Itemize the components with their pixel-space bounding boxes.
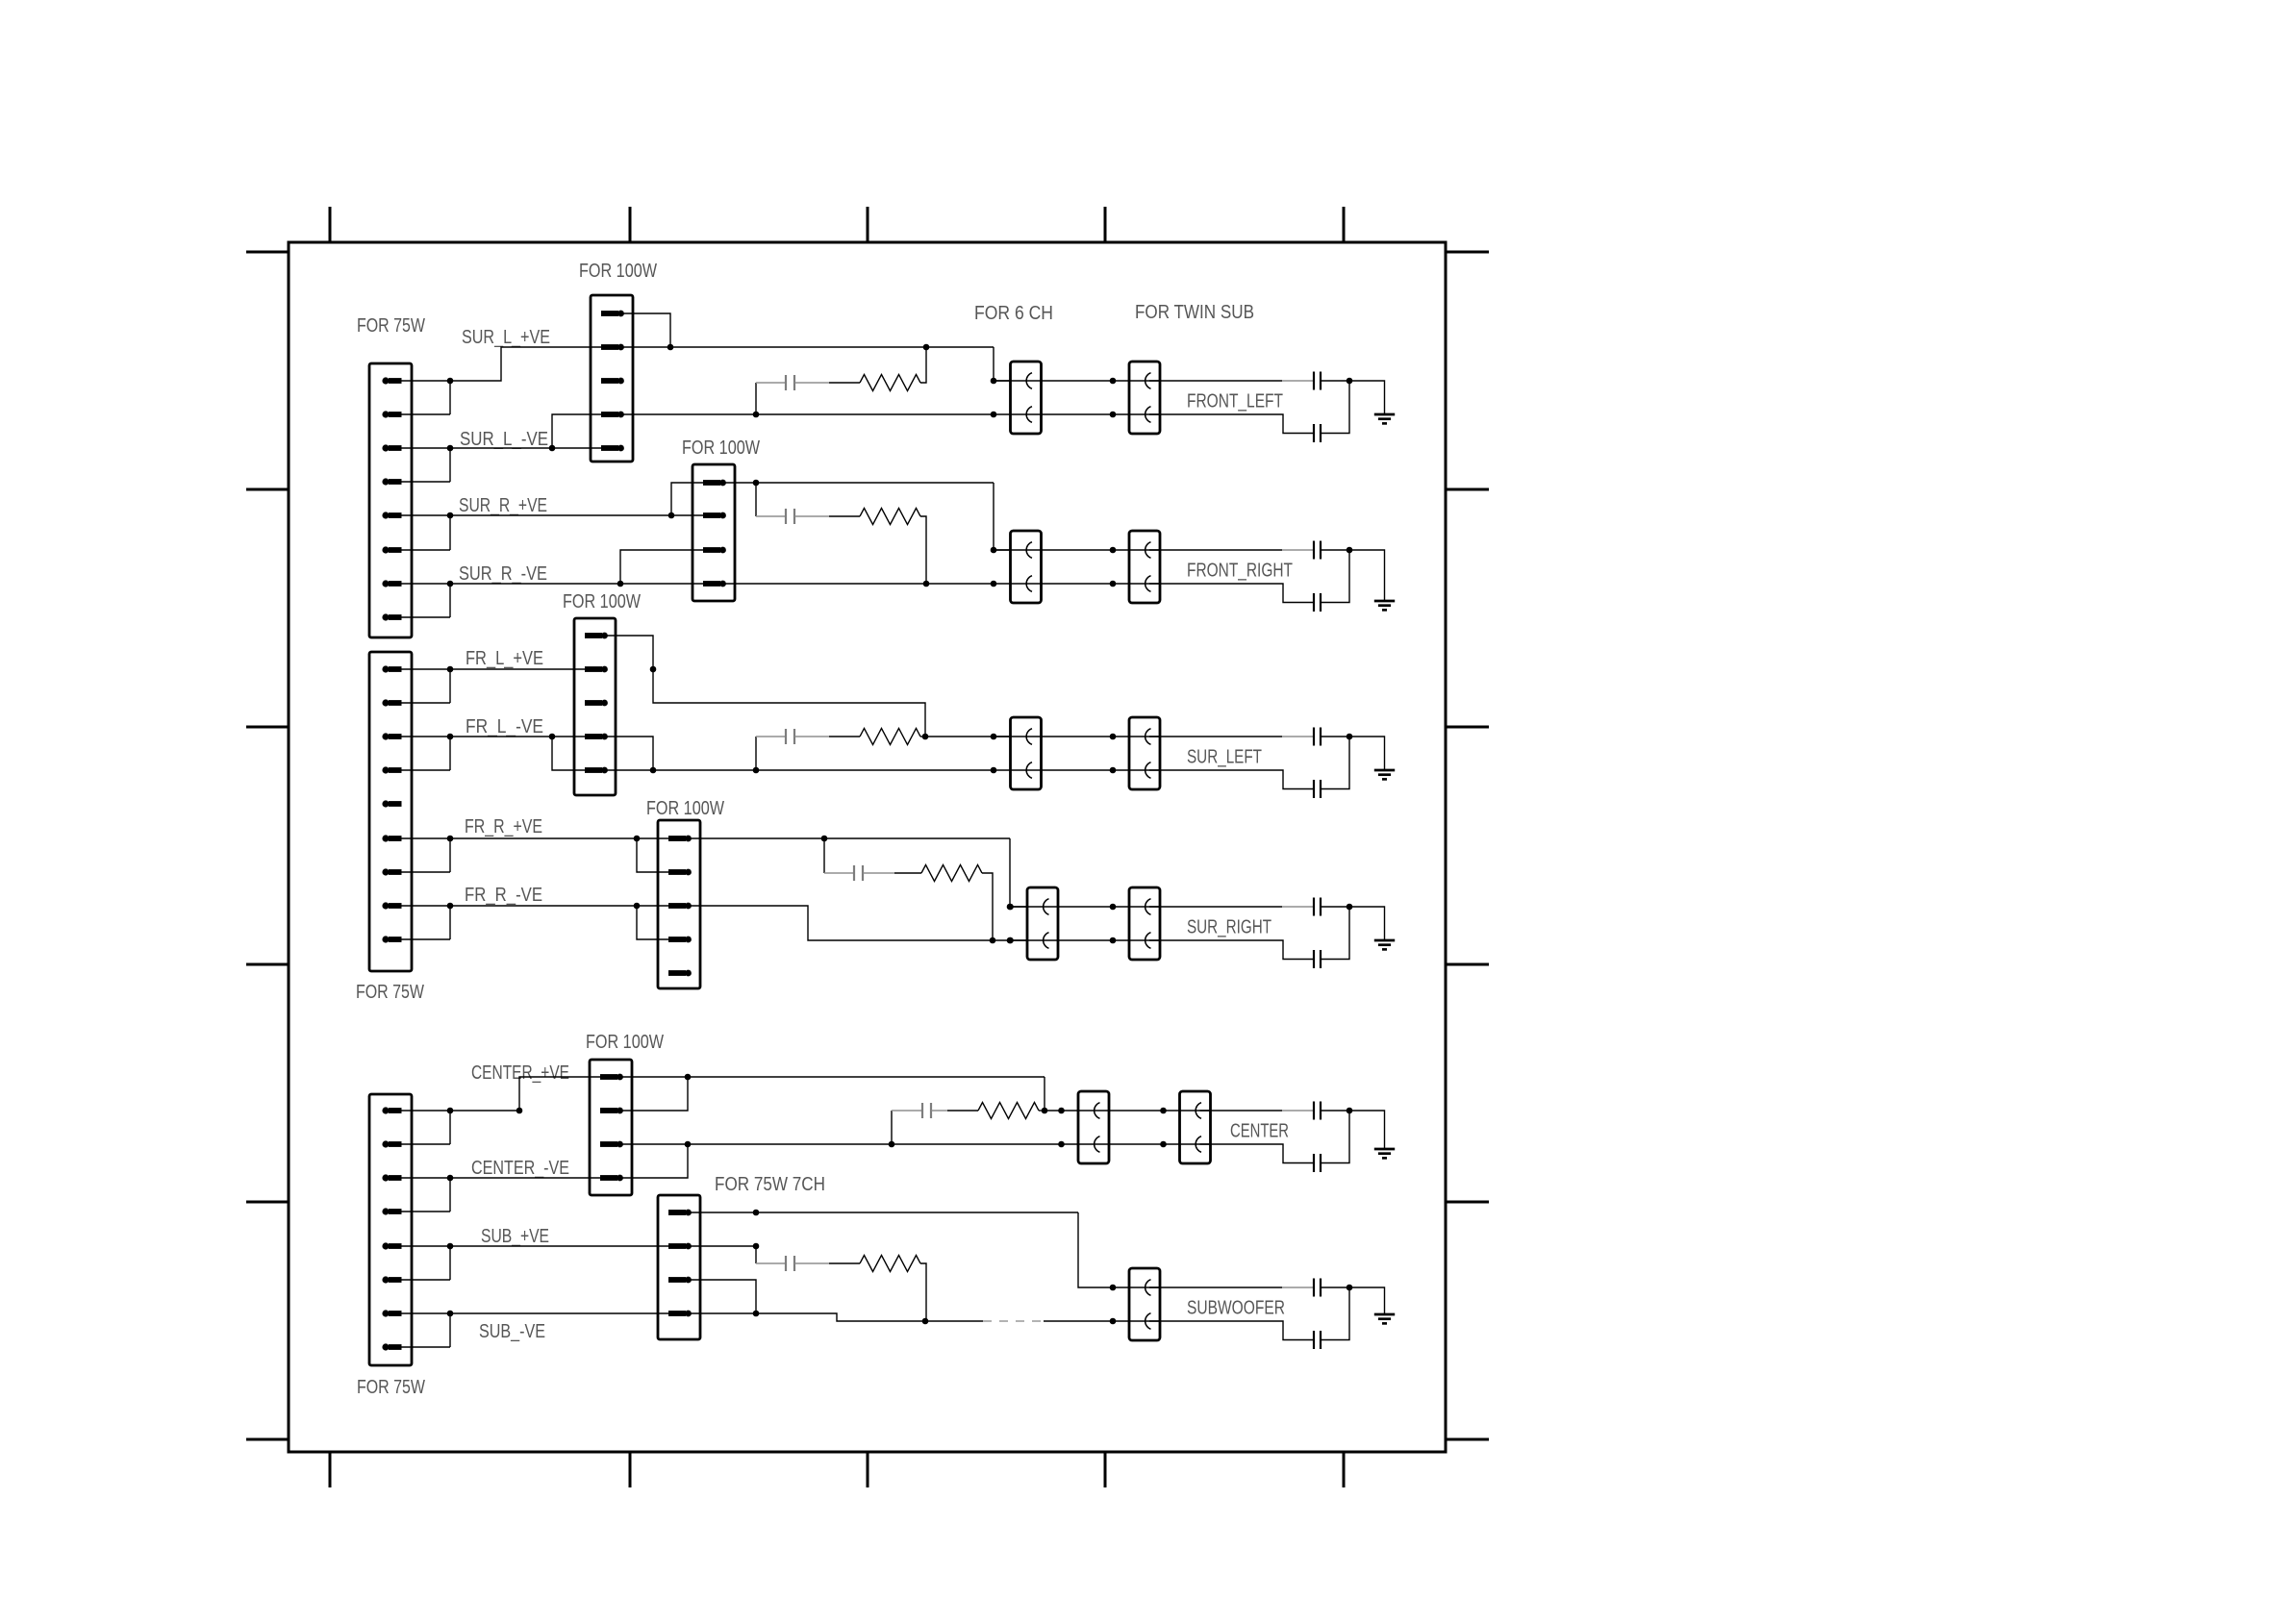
junction bbox=[447, 1175, 454, 1182]
wire bbox=[829, 1262, 860, 1264]
connector CN9 FOR TWIN SUB bbox=[1129, 717, 1160, 789]
junction bbox=[1110, 412, 1117, 418]
svg-text:FOR TWIN SUB: FOR TWIN SUB bbox=[1135, 302, 1254, 323]
connector CN2 FOR 6 CH bbox=[1011, 531, 1042, 603]
junction bbox=[1160, 1108, 1167, 1114]
svg-text:SUR_RIGHT: SUR_RIGHT bbox=[1187, 917, 1271, 938]
wire pin pair jog bbox=[401, 1313, 450, 1347]
wire bbox=[894, 872, 921, 874]
junction bbox=[1347, 378, 1353, 385]
connector J7 FOR 75W bbox=[369, 1094, 412, 1365]
svg-text:FR_L_+VE: FR_L_+VE bbox=[466, 648, 543, 669]
wire bbox=[1349, 1287, 1385, 1314]
wire pin pair jog bbox=[401, 584, 450, 617]
svg-text:FOR 100W: FOR 100W bbox=[646, 798, 724, 819]
wire row6 pin2 stub bbox=[689, 1245, 756, 1247]
svg-text:CENTER_-VE: CENTER_-VE bbox=[471, 1158, 569, 1179]
wire SUR_L_-VE bbox=[450, 414, 601, 448]
capacitor C4a bbox=[1313, 898, 1315, 916]
junction bbox=[1007, 937, 1014, 944]
wire bbox=[1321, 1111, 1349, 1163]
wire row2 -feed bbox=[723, 583, 994, 585]
junction bbox=[1347, 734, 1353, 740]
junction bbox=[753, 412, 760, 418]
wire bbox=[1321, 736, 1349, 737]
wire bbox=[982, 873, 993, 940]
wire row6 +feed bbox=[689, 1212, 1113, 1287]
connector CN5 FOR 6 CH bbox=[1078, 1091, 1109, 1163]
junction bbox=[1007, 904, 1014, 911]
svg-text:SUB_+VE: SUB_+VE bbox=[481, 1226, 549, 1247]
junction bbox=[991, 734, 997, 740]
connector J1 FOR 75W bbox=[369, 363, 412, 637]
resistor R3 bbox=[860, 729, 920, 745]
ground GND6 bbox=[1374, 1314, 1395, 1323]
junction bbox=[991, 412, 997, 418]
wire bbox=[1349, 737, 1385, 770]
wire bbox=[1200, 1144, 1315, 1163]
junction bbox=[447, 734, 454, 740]
wire bbox=[1321, 737, 1349, 789]
junction bbox=[923, 344, 930, 351]
wire bbox=[920, 1263, 926, 1321]
connector J3 FOR 100W bbox=[692, 464, 735, 601]
wire bbox=[993, 737, 1114, 770]
junction bbox=[447, 1243, 454, 1250]
svg-text:FOR 75W 7CH: FOR 75W 7CH bbox=[715, 1174, 825, 1195]
junction bbox=[991, 378, 997, 385]
wire pin pair jog bbox=[401, 448, 450, 482]
wire bbox=[1149, 736, 1314, 737]
wire FR_L_-VE bbox=[450, 737, 585, 770]
svg-text:FOR 75W: FOR 75W bbox=[356, 982, 424, 1003]
wire bbox=[1321, 1287, 1349, 1340]
junction bbox=[668, 512, 675, 519]
svg-text:FRONT_LEFT: FRONT_LEFT bbox=[1187, 391, 1283, 412]
junction bbox=[447, 378, 454, 385]
wire row4 +feed bbox=[689, 838, 1027, 907]
wire bbox=[1149, 380, 1314, 382]
connector CN8 FOR TWIN SUB bbox=[1129, 531, 1160, 603]
ground GND2 bbox=[1374, 601, 1395, 610]
resistor R6 bbox=[860, 1256, 920, 1272]
wire pin pair jog bbox=[401, 737, 450, 770]
wire row3 +feed bbox=[606, 636, 1011, 737]
connector J2 FOR 100W bbox=[591, 295, 633, 462]
wire bbox=[920, 736, 925, 737]
junction bbox=[1160, 1141, 1167, 1148]
wire row5 +feed bbox=[621, 1077, 1061, 1111]
wire bbox=[1321, 1110, 1349, 1112]
capacitor C1 bbox=[785, 375, 787, 390]
junction bbox=[991, 547, 997, 554]
junction bbox=[990, 937, 996, 944]
wire bbox=[795, 382, 830, 384]
wire pin pair jog bbox=[401, 1111, 450, 1144]
junction bbox=[1058, 1108, 1065, 1114]
wire bbox=[829, 736, 860, 737]
wire pin pair jog bbox=[401, 381, 450, 414]
wire bbox=[1149, 1287, 1314, 1288]
junction bbox=[685, 1074, 692, 1081]
wire bbox=[1164, 1111, 1212, 1144]
wire row5 -feed bbox=[621, 1144, 1061, 1178]
wire bbox=[920, 516, 926, 584]
junction bbox=[991, 767, 997, 774]
junction bbox=[447, 666, 454, 673]
wire bbox=[1113, 550, 1161, 584]
junction bbox=[1110, 378, 1117, 385]
resistor R2 bbox=[860, 509, 920, 525]
capacitor C6a bbox=[1313, 1279, 1315, 1297]
capacitor C2a bbox=[1313, 541, 1315, 560]
wire bbox=[1200, 1110, 1315, 1112]
svg-text:FOR 75W: FOR 75W bbox=[357, 315, 425, 337]
svg-text:FOR 100W: FOR 100W bbox=[563, 591, 641, 612]
capacitor C3b bbox=[1313, 780, 1315, 798]
junction bbox=[1347, 1108, 1353, 1114]
junction bbox=[821, 836, 828, 842]
junction bbox=[1042, 1108, 1048, 1114]
svg-text:SUBWOOFER: SUBWOOFER bbox=[1187, 1298, 1285, 1319]
snubber row5 bbox=[892, 1111, 922, 1144]
wire bbox=[1149, 906, 1314, 908]
junction bbox=[650, 666, 657, 673]
wire bbox=[1149, 770, 1314, 789]
wire bbox=[1321, 907, 1349, 960]
junction bbox=[447, 1311, 454, 1317]
junction bbox=[685, 1141, 692, 1148]
wire FR_L_+VE bbox=[450, 668, 585, 670]
wire pin pair jog bbox=[401, 838, 450, 872]
capacitor C6b bbox=[1313, 1331, 1315, 1349]
junction bbox=[889, 1141, 895, 1148]
ground GND1 bbox=[1374, 414, 1395, 423]
wire SUB_-VE bbox=[450, 1312, 668, 1314]
resistor R5 bbox=[978, 1103, 1039, 1119]
wire SUR_L_+VE bbox=[450, 347, 601, 381]
svg-text:SUR_LEFT: SUR_LEFT bbox=[1187, 747, 1262, 768]
wire bbox=[1113, 737, 1161, 770]
wire dashed bbox=[983, 1320, 1044, 1322]
capacitor C3a bbox=[1313, 728, 1315, 746]
wire pin pair jog bbox=[401, 1246, 450, 1280]
junction bbox=[650, 767, 657, 774]
svg-text:FOR 6 CH: FOR 6 CH bbox=[974, 303, 1053, 324]
capacitor C2 bbox=[785, 509, 787, 524]
wire bbox=[795, 1262, 830, 1264]
wire bbox=[1349, 381, 1385, 414]
junction bbox=[1007, 904, 1014, 911]
svg-text:CENTER_+VE: CENTER_+VE bbox=[471, 1062, 569, 1084]
wire bbox=[1321, 549, 1349, 551]
wire pin pair jog bbox=[401, 1178, 450, 1212]
junction bbox=[1347, 547, 1353, 554]
wire bbox=[1113, 381, 1161, 414]
wire pin pair jog bbox=[401, 515, 450, 550]
junction bbox=[549, 734, 556, 740]
wire bbox=[1349, 550, 1385, 601]
wire bbox=[993, 550, 1114, 584]
wire bbox=[1044, 1320, 1113, 1322]
wire bbox=[1321, 906, 1349, 908]
junction bbox=[1110, 1318, 1117, 1325]
junction bbox=[1110, 767, 1117, 774]
capacitor C4b bbox=[1313, 950, 1315, 968]
junction bbox=[447, 581, 454, 587]
junction bbox=[1110, 904, 1117, 911]
junction bbox=[1110, 937, 1117, 944]
connector CN11 FOR TWIN SUB bbox=[1180, 1091, 1211, 1163]
junction bbox=[753, 1210, 760, 1216]
svg-text:SUR_L_-VE: SUR_L_-VE bbox=[460, 429, 548, 450]
junction bbox=[753, 480, 760, 487]
junction bbox=[1110, 734, 1117, 740]
ground GND3 bbox=[1374, 770, 1395, 779]
wire row6 pin3 jog bbox=[689, 1280, 756, 1313]
wire bbox=[864, 872, 895, 874]
wire row4 -feed bbox=[689, 906, 1027, 940]
svg-text:SUR_R_-VE: SUR_R_-VE bbox=[459, 563, 547, 585]
connector CN3 FOR 6 CH bbox=[1011, 717, 1042, 789]
svg-text:FR_L_-VE: FR_L_-VE bbox=[466, 716, 543, 737]
wire bbox=[932, 1110, 948, 1112]
wire bbox=[829, 515, 860, 517]
capacitor C5a bbox=[1313, 1102, 1315, 1120]
capacitor C6 bbox=[785, 1256, 787, 1271]
wire bbox=[1349, 907, 1385, 940]
wire SUR_R_+VE bbox=[450, 483, 703, 515]
wire bbox=[829, 382, 860, 384]
snubber row1 bbox=[756, 383, 786, 414]
svg-text:FOR 100W: FOR 100W bbox=[579, 261, 657, 282]
capacitor C5 bbox=[921, 1103, 923, 1118]
wire bbox=[920, 347, 926, 383]
wire row6 -feed bbox=[689, 1313, 983, 1321]
wire bbox=[1349, 1111, 1385, 1149]
junction bbox=[667, 344, 674, 351]
svg-text:FRONT_RIGHT: FRONT_RIGHT bbox=[1187, 561, 1293, 582]
capacitor C1a bbox=[1313, 372, 1315, 390]
wire bbox=[1149, 940, 1314, 960]
snubber row3 bbox=[756, 737, 786, 770]
wire row1 -feed bbox=[621, 413, 994, 415]
junction bbox=[1110, 1285, 1117, 1291]
capacitor C5b bbox=[1313, 1154, 1315, 1172]
junction bbox=[1347, 904, 1353, 911]
connector J6 FOR 100W bbox=[658, 820, 700, 988]
wire bbox=[1113, 1287, 1161, 1321]
junction bbox=[922, 734, 929, 740]
junction bbox=[634, 836, 641, 842]
ground GND4 bbox=[1374, 940, 1395, 949]
wire bbox=[1321, 381, 1349, 434]
wire bbox=[947, 1110, 978, 1112]
connector CN12 FOR TWIN SUB bbox=[1129, 1268, 1160, 1340]
junction bbox=[447, 1108, 454, 1114]
capacitor C1b bbox=[1313, 424, 1315, 442]
wire pin pair jog bbox=[401, 906, 450, 939]
wire CENTER_-VE bbox=[450, 1177, 600, 1179]
junction bbox=[447, 512, 454, 519]
svg-text:FOR 100W: FOR 100W bbox=[586, 1032, 664, 1053]
junction bbox=[922, 1318, 929, 1325]
junction bbox=[991, 581, 997, 587]
wire bbox=[1321, 380, 1349, 382]
snubber row2 bbox=[756, 483, 786, 516]
wire bbox=[1061, 1111, 1165, 1144]
wire row2 +feed bbox=[723, 483, 1011, 550]
junction bbox=[1007, 937, 1014, 944]
svg-text:CENTER: CENTER bbox=[1230, 1121, 1289, 1142]
wire bbox=[1149, 549, 1314, 551]
wire bbox=[1321, 550, 1349, 603]
connector J5 FOR 100W bbox=[574, 618, 616, 795]
junction bbox=[753, 767, 760, 774]
junction bbox=[549, 445, 556, 452]
capacitor C3 bbox=[785, 729, 787, 744]
ground GND5 bbox=[1374, 1149, 1395, 1158]
snubber row6 bbox=[756, 1246, 786, 1263]
connector CN1 FOR 6 CH bbox=[1011, 362, 1042, 434]
wire bbox=[1039, 1110, 1045, 1112]
resistor R4 bbox=[921, 865, 982, 882]
wire row3 -feed bbox=[606, 737, 994, 770]
wire bbox=[795, 736, 830, 737]
svg-text:FR_R_-VE: FR_R_-VE bbox=[465, 885, 542, 906]
resistor R1 bbox=[860, 375, 920, 391]
junction bbox=[516, 1108, 523, 1114]
wire SUR_R_-VE bbox=[450, 550, 703, 584]
svg-text:FR_R_+VE: FR_R_+VE bbox=[465, 816, 542, 837]
junction bbox=[1110, 581, 1117, 587]
wire FR_R_+VE bbox=[450, 838, 668, 872]
wire bbox=[1113, 907, 1161, 940]
junction bbox=[753, 1311, 760, 1317]
junction bbox=[1347, 1285, 1353, 1291]
connector CN7 FOR TWIN SUB bbox=[1129, 362, 1160, 434]
wire SUB_+VE bbox=[450, 1245, 668, 1247]
svg-text:FOR 75W: FOR 75W bbox=[357, 1377, 425, 1398]
wire bbox=[993, 381, 1114, 414]
svg-text:SUR_L_+VE: SUR_L_+VE bbox=[462, 327, 550, 348]
junction bbox=[1110, 547, 1117, 554]
wire bbox=[1149, 1321, 1314, 1340]
connector J9 FOR 75W 7CH bbox=[658, 1195, 700, 1339]
junction bbox=[447, 836, 454, 842]
connector J4 FOR 75W bbox=[369, 652, 412, 971]
wire bbox=[1149, 414, 1314, 434]
wire FR_R_-VE bbox=[450, 906, 668, 939]
wire pin pair jog bbox=[401, 669, 450, 703]
svg-text:SUB_-VE: SUB_-VE bbox=[479, 1321, 545, 1342]
wire bbox=[795, 515, 830, 517]
junction bbox=[447, 445, 454, 452]
wire row1 +feed bbox=[621, 313, 1011, 381]
capacitor C4 bbox=[853, 865, 855, 881]
junction bbox=[753, 1243, 760, 1250]
connector CN10 FOR TWIN SUB bbox=[1129, 887, 1160, 960]
junction bbox=[617, 581, 624, 587]
connector CN4 FOR 6 CH bbox=[1027, 887, 1058, 960]
junction bbox=[447, 903, 454, 910]
snubber row4 bbox=[824, 838, 854, 873]
svg-text:FOR 100W: FOR 100W bbox=[682, 437, 760, 459]
wire bbox=[1321, 1287, 1349, 1288]
connector J8 FOR 100W bbox=[590, 1060, 632, 1195]
wire bbox=[1010, 907, 1115, 940]
junction bbox=[1058, 1141, 1065, 1148]
wire CENTER_+VE bbox=[450, 1077, 600, 1111]
wire bbox=[1149, 584, 1314, 603]
junction bbox=[634, 903, 641, 910]
svg-text:SUR_R_+VE: SUR_R_+VE bbox=[459, 495, 547, 516]
junction bbox=[923, 581, 930, 587]
capacitor C2b bbox=[1313, 593, 1315, 612]
